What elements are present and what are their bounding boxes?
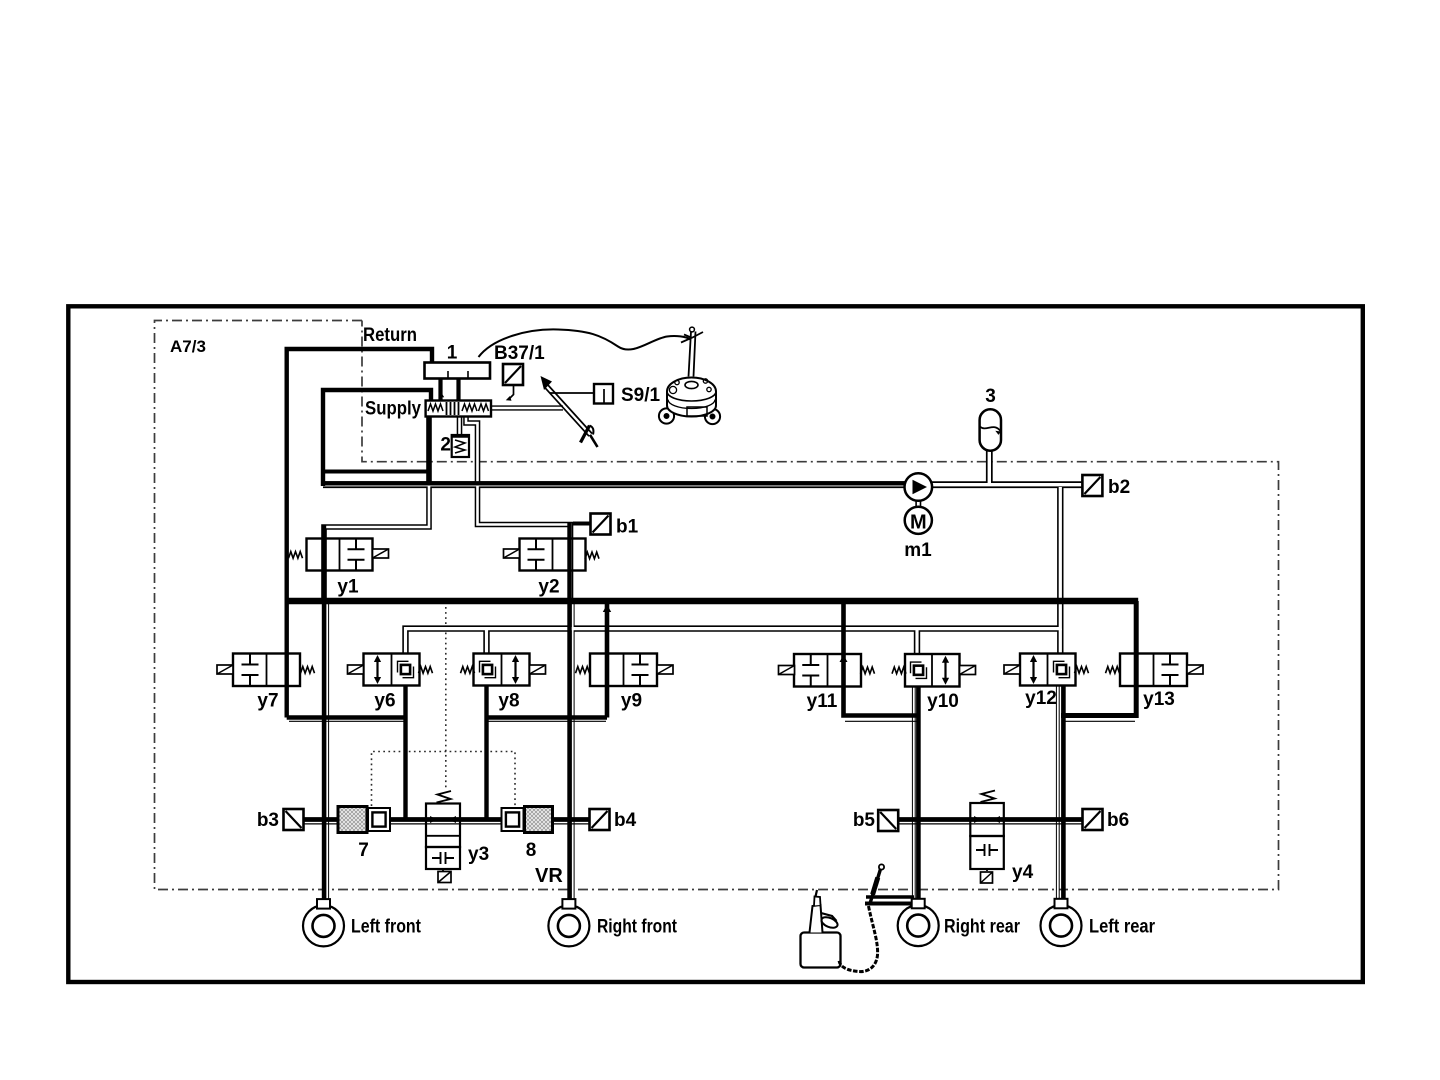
svg-text:1: 1 [447, 343, 458, 364]
svg-text:y2: y2 [538, 577, 559, 598]
svg-text:8: 8 [526, 840, 537, 861]
svg-text:y3: y3 [468, 844, 489, 865]
svg-text:b4: b4 [614, 810, 637, 831]
svg-text:Right rear: Right rear [944, 917, 1021, 938]
svg-text:3: 3 [985, 386, 996, 407]
svg-text:y7: y7 [257, 691, 278, 712]
svg-text:7: 7 [358, 840, 369, 861]
svg-text:y1: y1 [337, 577, 359, 598]
svg-text:b1: b1 [616, 517, 639, 538]
svg-text:2: 2 [440, 435, 451, 456]
svg-text:b3: b3 [257, 810, 279, 831]
svg-text:Supply: Supply [365, 399, 421, 420]
svg-text:Return: Return [363, 325, 417, 346]
svg-text:Left front: Left front [351, 917, 422, 938]
svg-text:y9: y9 [621, 691, 642, 712]
svg-text:y12: y12 [1025, 688, 1057, 709]
svg-text:S9/1: S9/1 [621, 385, 661, 406]
svg-text:y13: y13 [1143, 689, 1175, 710]
svg-text:b2: b2 [1108, 477, 1130, 498]
svg-text:Left rear: Left rear [1089, 917, 1156, 938]
svg-text:VR: VR [535, 865, 563, 887]
svg-text:y11: y11 [807, 691, 838, 712]
svg-text:y6: y6 [374, 691, 395, 712]
svg-text:y4: y4 [1012, 862, 1034, 883]
svg-text:b5: b5 [853, 810, 876, 831]
svg-text:b6: b6 [1107, 810, 1129, 831]
svg-text:A7/3: A7/3 [170, 337, 206, 356]
svg-text:M: M [910, 512, 927, 534]
svg-text:y8: y8 [498, 691, 519, 712]
svg-text:y10: y10 [927, 691, 959, 712]
svg-text:m1: m1 [904, 540, 932, 561]
svg-text:Right front: Right front [597, 917, 678, 938]
svg-text:B37/1: B37/1 [494, 343, 545, 364]
